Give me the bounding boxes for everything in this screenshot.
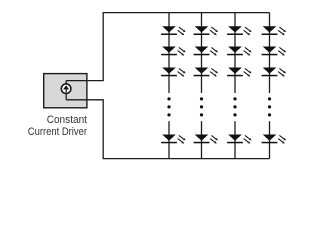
current source arrow — [65, 88, 67, 92]
LED D14 (column 4, row 2) — [262, 47, 287, 56]
ellipsis dots column 2 — [200, 97, 203, 116]
wire: driver top output to top bus — [66, 13, 269, 81]
wire: column 3 upper segment — [234, 13, 236, 93]
LED D6 (column 2, row 2) — [194, 47, 219, 56]
LED D13 (column 4, row 1) — [262, 26, 287, 35]
ellipsis dots column 4 — [268, 97, 271, 116]
svg-text:Current Driver: Current Driver — [28, 126, 88, 138]
LED D3 (column 1, row 3) — [161, 68, 186, 77]
current source U1 circle — [61, 84, 71, 94]
LED D4 (column 1, row 4) — [161, 135, 186, 144]
wire: driver bottom output to bottom bus — [66, 100, 269, 159]
svg-text:Constant: Constant — [47, 114, 87, 126]
LED D11 (column 3, row 3) — [227, 68, 252, 77]
LED D1 (column 1, row 1) — [161, 26, 186, 35]
wire: column 4 lower segment — [269, 121, 271, 158]
LED D10 (column 3, row 2) — [227, 47, 252, 56]
wire: column 1 upper segment — [168, 13, 170, 93]
wire: column 2 lower segment — [201, 121, 203, 158]
LED D15 (column 4, row 3) — [262, 68, 287, 77]
LED D9 (column 3, row 1) — [227, 26, 252, 35]
LED D8 (column 2, row 4) — [194, 135, 219, 144]
wire: top stub of current source — [65, 81, 67, 84]
ellipsis dots column 3 — [233, 97, 236, 116]
wire: column 4 upper segment — [269, 13, 271, 93]
LED D7 (column 2, row 3) — [194, 68, 219, 77]
wire: column 3 lower segment — [234, 121, 236, 158]
LED D12 (column 3, row 4) — [227, 135, 252, 144]
LED D16 (column 4, row 4) — [262, 135, 287, 144]
constant current driver box — [44, 74, 87, 108]
wire: column 2 upper segment — [201, 13, 203, 93]
wire: bottom stub of current source — [65, 94, 67, 100]
ellipsis dots column 1 — [167, 97, 170, 116]
LED D2 (column 1, row 2) — [161, 47, 186, 56]
LED D5 (column 2, row 1) — [194, 26, 219, 35]
wire: column 1 lower segment — [168, 121, 170, 158]
